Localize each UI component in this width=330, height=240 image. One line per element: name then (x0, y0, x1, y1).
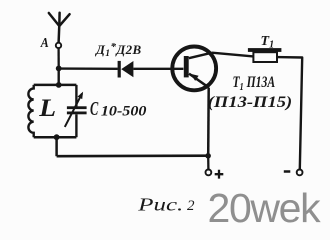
tank bottom wire (34, 136, 77, 139)
wire junction down to tank top (58, 68, 60, 84)
junction node plus (205, 153, 211, 159)
junction node (antenna/diode/tank) (56, 66, 62, 72)
svg-text:С: С (90, 97, 99, 120)
junction node tank bottom (54, 134, 60, 140)
diode D1 cathode bar (118, 61, 121, 78)
minus terminal circle (297, 170, 303, 176)
wire collector to phones (212, 53, 253, 57)
transistor base bar (184, 56, 189, 77)
plus sign (215, 170, 224, 179)
capacitor branch lower lead (75, 114, 77, 137)
headphone T1 top bar (248, 48, 282, 52)
label C 10-500 (90, 97, 99, 120)
wire tank bottom to rail (55, 137, 58, 156)
svg-text:A: A (40, 35, 49, 50)
svg-text:Т1 П13А: Т1 П13А (233, 74, 276, 93)
wire junction to diode (59, 67, 118, 70)
transistor emitter arrow (PNP, pointing to base) (190, 74, 198, 81)
svg-text:L: L (38, 93, 56, 122)
capacitor C top plate (67, 106, 87, 109)
wire to plus terminal (207, 156, 209, 170)
variable capacitor arrow head (78, 92, 84, 100)
tank top wire (34, 84, 77, 87)
emitter wire down (207, 88, 210, 156)
capacitor C bottom plate (67, 112, 87, 115)
junction node tank top (56, 82, 62, 88)
bottom rail wire (57, 154, 209, 157)
wire diode to transistor base (133, 68, 183, 70)
label L (38, 93, 56, 122)
headphone T1 body rectangle (253, 52, 277, 62)
transistor collector line (189, 53, 212, 59)
node A terminal circle (56, 43, 61, 48)
transistor Q1 circle (172, 47, 216, 91)
diode D1 triangle (121, 61, 133, 77)
svg-text:10-500: 10-500 (101, 104, 147, 120)
svg-text:2: 2 (187, 198, 195, 214)
svg-text:(П13-П15): (П13-П15) (208, 94, 293, 111)
transistor emitter line (189, 74, 209, 88)
svg-text:Рис.: Рис. (137, 195, 183, 215)
wire phones to minus terminal (277, 57, 302, 169)
antenna (49, 13, 70, 43)
capacitor branch upper lead (75, 85, 77, 107)
minus sign (284, 170, 291, 173)
svg-text:Д1*Д2В: Д1*Д2В (95, 41, 142, 59)
plus terminal circle (206, 170, 212, 176)
wire antenna to junction (57, 48, 59, 68)
label T1 P13A (233, 74, 276, 93)
svg-text:20wek: 20wek (208, 185, 322, 231)
inductor L winding (28, 85, 33, 137)
variable capacitor arrow shaft (65, 94, 82, 127)
